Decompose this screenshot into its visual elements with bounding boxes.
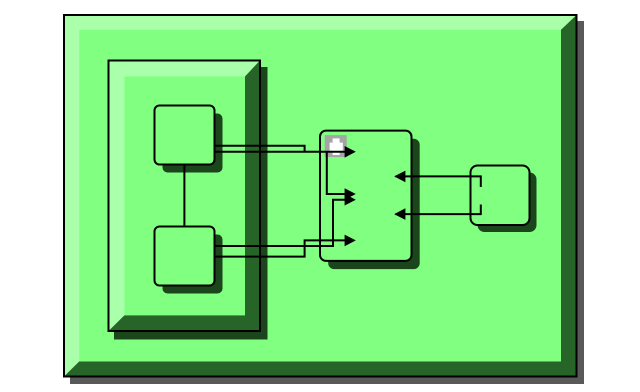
block A (155, 106, 215, 165)
inner panel border (108, 60, 262, 333)
inner panel light bevel (110, 62, 260, 331)
inner panel drop shadow (114, 67, 268, 340)
outer panel border (63, 14, 578, 378)
center block shadow (328, 139, 420, 269)
right block shadow (478, 173, 537, 233)
outer panel field (79, 30, 561, 362)
wire B lower to center input 3 (215, 240, 355, 256)
right block (471, 166, 530, 226)
wire branch to center input 2a (327, 152, 354, 194)
arrowhead input 1 (345, 146, 356, 158)
arrowhead input 2a (345, 188, 356, 200)
arrowhead input 3 (345, 235, 356, 247)
icon on center block (325, 135, 347, 157)
inner panel field (125, 77, 246, 316)
wire A upper (215, 146, 305, 152)
outer panel dark bevel (65, 16, 576, 376)
block B (155, 227, 215, 286)
wire A-B vertical link (183, 165, 185, 227)
inner panel dark bevel (110, 62, 260, 331)
wire right block lower to center (396, 205, 481, 215)
wire A lower to center input 1 (215, 151, 355, 153)
block B shadow (163, 235, 223, 294)
wire B upper to center input 2b (215, 200, 355, 246)
outer panel drop shadow (70, 21, 584, 384)
block A shadow (163, 114, 223, 173)
wire right block upper to center (396, 176, 481, 187)
outer panel light bevel (65, 16, 576, 376)
center block (320, 131, 412, 261)
arrowhead right lower (left-pointing) (394, 208, 405, 220)
arrowhead input 2b (345, 194, 356, 206)
arrowhead right upper (left-pointing) (394, 171, 405, 183)
